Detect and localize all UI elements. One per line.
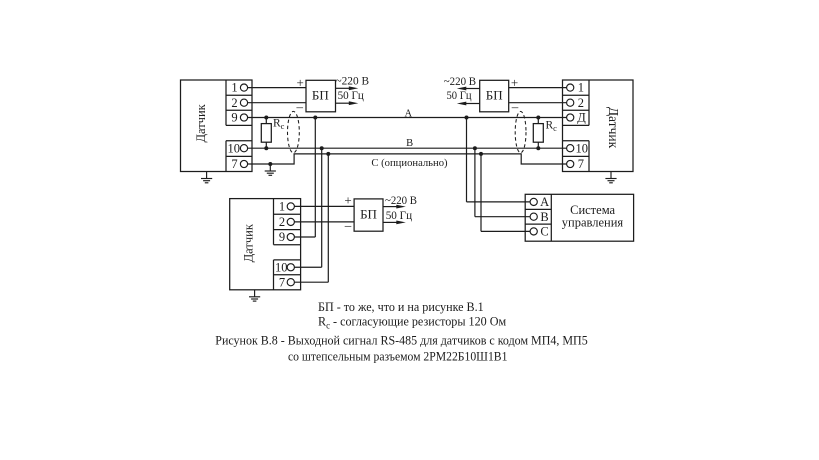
CTRL terminal A bbox=[530, 198, 537, 205]
ground (S3 case) bbox=[249, 290, 260, 301]
svg-text:БП: БП bbox=[486, 87, 503, 102]
svg-text:10: 10 bbox=[227, 141, 240, 155]
S1 pin 2 terminal bbox=[240, 99, 247, 106]
S2 pin 7 terminal bbox=[567, 160, 574, 167]
U1 mains arrow 2 bbox=[336, 101, 359, 105]
U3 mains arrow 2 bbox=[383, 221, 406, 225]
wire drop B to S3 pin 10 bbox=[321, 148, 323, 267]
svg-text:БП: БП bbox=[312, 87, 329, 102]
junction S1.7 / ground bbox=[268, 162, 272, 166]
wire S1.1 to U1 + bbox=[248, 87, 306, 89]
svg-text:Rc: Rc bbox=[546, 119, 558, 133]
S3 pin 2 terminal bbox=[287, 218, 294, 225]
svg-text:2: 2 bbox=[578, 96, 584, 110]
svg-text:–: – bbox=[296, 99, 304, 114]
svg-text:1: 1 bbox=[279, 200, 285, 214]
ground (line C, left) bbox=[265, 164, 276, 175]
junction line B / drop to CTRL B bbox=[473, 146, 477, 150]
U3 mains arrow 1 bbox=[383, 205, 406, 209]
S2 pin Д terminal bbox=[567, 114, 574, 121]
cable shield marker (left twisted pair ellipse) bbox=[288, 111, 300, 152]
svg-text:Датчик: Датчик bbox=[241, 223, 255, 262]
svg-text:Rc: Rc bbox=[273, 118, 285, 132]
junction R1-line A bbox=[264, 116, 268, 120]
wire drop C to S3 pin 7 bbox=[327, 154, 329, 282]
svg-text:БП - то же, что и на рисунке В: БП - то же, что и на рисунке В.1 bbox=[318, 300, 484, 314]
power supply U1 (БП) bbox=[306, 80, 336, 112]
S3 pin 9 terminal bbox=[287, 233, 294, 240]
svg-text:2: 2 bbox=[279, 215, 285, 229]
wire CTRL B horizontal bbox=[475, 216, 530, 218]
U2 mains arrow 1 bbox=[457, 87, 480, 91]
junction R2-line B bbox=[536, 146, 540, 150]
svg-text:~220 В: ~220 В bbox=[336, 75, 370, 87]
S3 pin 1 terminal bbox=[287, 203, 294, 210]
wire CTRL C horizontal bbox=[481, 230, 530, 232]
wire S3.9 horizontal bbox=[294, 236, 315, 238]
S1 pin 9 terminal bbox=[240, 114, 247, 121]
S1 pin 7 terminal bbox=[240, 160, 247, 167]
wire line B bbox=[248, 147, 567, 149]
ground (S2 case) bbox=[605, 172, 616, 183]
svg-text:10: 10 bbox=[275, 260, 288, 274]
svg-text:А: А bbox=[540, 195, 549, 209]
svg-text:Рисунок В.8 - Выходной сигнал: Рисунок В.8 - Выходной сигнал RS-485 для… bbox=[215, 333, 587, 347]
svg-text:Rc - согласующие резисторы 120: Rc - согласующие резисторы 120 Ом bbox=[318, 315, 506, 331]
svg-text:–: – bbox=[511, 99, 519, 114]
power supply U2 (БП) bbox=[480, 80, 509, 112]
resistor R2 (Rc right) bbox=[533, 118, 543, 149]
control system box "Система управления" bbox=[525, 194, 633, 241]
S2 pin 2 terminal bbox=[567, 99, 574, 106]
svg-text:+: + bbox=[297, 75, 304, 90]
wire S3.2 to U3 - bbox=[294, 221, 354, 223]
svg-text:7: 7 bbox=[231, 157, 237, 171]
CTRL terminal C bbox=[530, 228, 537, 235]
svg-text:1: 1 bbox=[578, 81, 584, 95]
svg-text:2: 2 bbox=[231, 96, 237, 110]
S1 pin 10 terminal bbox=[240, 145, 247, 152]
CTRL terminal B bbox=[530, 213, 537, 220]
svg-text:50 Гц: 50 Гц bbox=[447, 90, 472, 102]
svg-text:со штепсельным разъемом 2РМ22Б: со штепсельным разъемом 2РМ22Б10Ш1В1 bbox=[288, 350, 507, 364]
svg-text:9: 9 bbox=[279, 230, 285, 244]
wire line A bbox=[248, 117, 567, 119]
junction line C / drop to S3.7 bbox=[326, 152, 330, 156]
wire S3.10 horizontal bbox=[294, 266, 321, 268]
svg-text:Датчик: Датчик bbox=[194, 103, 208, 142]
svg-text:10: 10 bbox=[575, 141, 588, 155]
svg-text:50 Гц: 50 Гц bbox=[386, 210, 412, 222]
ground (S1 case) bbox=[201, 172, 212, 183]
junction line C / drop to CTRL C bbox=[479, 152, 483, 156]
svg-text:~220 В: ~220 В bbox=[385, 195, 417, 207]
wire line C (optional) bbox=[248, 154, 567, 164]
junction R2-line A bbox=[536, 116, 540, 120]
cable shield marker (right twisted pair ellipse) bbox=[515, 111, 526, 152]
svg-text:БП: БП bbox=[360, 206, 377, 221]
svg-text:7: 7 bbox=[279, 275, 285, 289]
S3 pin 10 terminal bbox=[287, 264, 294, 271]
power supply U3 (БП) bbox=[354, 199, 383, 231]
svg-text:–: – bbox=[344, 217, 352, 232]
U1 mains arrow 1 bbox=[336, 86, 359, 90]
wire U2 + to S2.1 bbox=[509, 87, 567, 89]
wire U2 - to S2.2 bbox=[509, 102, 567, 104]
svg-text:50 Гц: 50 Гц bbox=[338, 90, 364, 102]
S2 pin 10 terminal bbox=[567, 145, 574, 152]
svg-text:С (опционально): С (опционально) bbox=[371, 157, 448, 169]
U2 mains arrow 2 bbox=[457, 102, 480, 106]
wire drop B to CTRL B bbox=[474, 148, 476, 217]
junction R1-line B bbox=[264, 146, 268, 150]
sensor S2 "Датчик" (right) box bbox=[563, 80, 634, 172]
resistor R1 (Rc left) bbox=[261, 118, 271, 149]
junction line A / drop to S3.9 bbox=[313, 116, 317, 120]
svg-text:В: В bbox=[540, 210, 548, 224]
svg-text:7: 7 bbox=[578, 157, 584, 171]
junction line B / drop to S3.10 bbox=[320, 146, 324, 150]
wire drop A to S3 pin 9 bbox=[314, 118, 316, 238]
sensor S3 "Датчик" (bottom) box bbox=[230, 199, 301, 290]
wire S1.2 to U1 - bbox=[248, 102, 306, 104]
wire S3.1 to U3 + bbox=[294, 205, 354, 207]
sensor S1 "Датчик" (left) box bbox=[181, 80, 253, 172]
svg-text:9: 9 bbox=[231, 111, 237, 125]
S3 pin 7 terminal bbox=[287, 279, 294, 286]
svg-text:~220 В: ~220 В bbox=[444, 76, 476, 88]
svg-text:управления: управления bbox=[562, 215, 624, 229]
svg-text:А: А bbox=[405, 109, 413, 120]
svg-text:1: 1 bbox=[231, 81, 237, 95]
wire S3.7 horizontal bbox=[294, 281, 328, 283]
S1 pin 1 terminal bbox=[240, 84, 247, 91]
svg-text:Д: Д bbox=[577, 111, 586, 125]
svg-text:+: + bbox=[344, 193, 351, 208]
S2 pin 1 terminal bbox=[567, 84, 574, 91]
svg-text:С: С bbox=[540, 225, 548, 239]
wire CTRL A horizontal bbox=[467, 201, 531, 203]
junction line A / drop to CTRL A bbox=[465, 116, 469, 120]
svg-text:Датчик: Датчик bbox=[606, 107, 621, 149]
wire drop C to CTRL C bbox=[480, 154, 482, 232]
svg-text:В: В bbox=[406, 138, 413, 149]
wire drop A to CTRL A bbox=[466, 118, 468, 202]
